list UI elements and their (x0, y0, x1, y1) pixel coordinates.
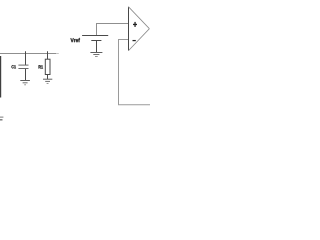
wire (cut-off element at left edge) (0, 56, 2, 98)
voltage source Vref (battery symbol) (82, 36, 108, 53)
ground (under Vref) (90, 53, 102, 57)
wire (main top-left net) (0, 53, 59, 55)
op-amp U1 (129, 7, 150, 51)
wire (inverting input / feedback) (119, 40, 151, 105)
op-amp inverting input marking - (133, 40, 136, 41)
label C1 (12, 65, 16, 68)
wire (op-amp + input to Vref) (97, 24, 129, 36)
resistor R1 (45, 51, 50, 79)
capacitor C1 (18, 51, 28, 80)
op-amp non-inverting input marking + (133, 22, 137, 27)
ground (under C1) (20, 81, 30, 85)
label fragment (cut off at left edge) (0, 117, 3, 121)
ground (under R1) (43, 79, 52, 83)
label R1 (39, 65, 43, 68)
label Vref (71, 38, 80, 42)
